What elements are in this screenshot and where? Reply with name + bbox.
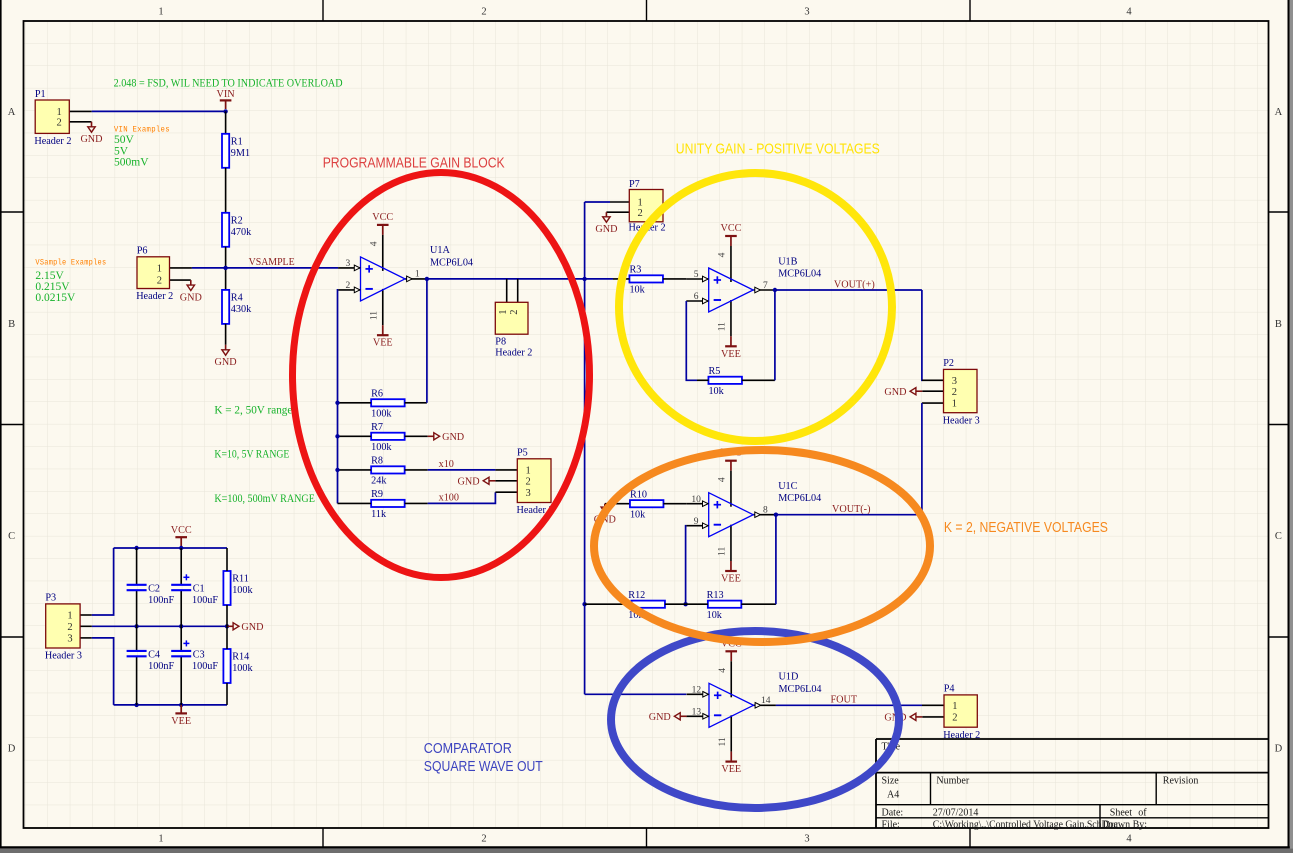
wire R14 bottom lead bbox=[226, 683, 228, 705]
svg-text:C3: C3 bbox=[193, 650, 205, 661]
svg-text:K=10, 5V RANGE: K=10, 5V RANGE bbox=[214, 449, 289, 461]
junction feedback R6 bbox=[335, 401, 339, 405]
wire VOUT+ down to P2 pin3 bbox=[921, 290, 923, 380]
svg-text:A: A bbox=[1275, 107, 1283, 118]
svg-text:U1D: U1D bbox=[779, 672, 799, 683]
wire R3 to U1B pin5 bbox=[663, 278, 686, 280]
wire R2 to VSAMPLE node bbox=[225, 247, 227, 268]
svg-text:MCP6L04: MCP6L04 bbox=[430, 257, 473, 268]
ground at R10 bbox=[594, 504, 616, 526]
svg-text:12: 12 bbox=[692, 686, 702, 696]
power port VCC at cap bank bbox=[171, 525, 192, 548]
svg-text:1: 1 bbox=[57, 107, 62, 118]
svg-text:4: 4 bbox=[718, 252, 728, 257]
wire bus to R3 bbox=[585, 278, 613, 280]
junction feedback R8 bbox=[335, 468, 339, 472]
svg-text:0.0215V: 0.0215V bbox=[35, 292, 76, 304]
wire bus to R9 bbox=[338, 502, 372, 504]
svg-text:50V: 50V bbox=[114, 134, 135, 146]
svg-text:1: 1 bbox=[498, 309, 509, 314]
svg-text:4: 4 bbox=[718, 477, 728, 482]
junction U1A output bbox=[425, 277, 429, 281]
svg-text:U1B: U1B bbox=[778, 256, 797, 267]
wire VOUT- up to P2 pin1 bbox=[921, 403, 923, 515]
svg-text:Number: Number bbox=[936, 776, 969, 787]
svg-text:VEE: VEE bbox=[373, 338, 393, 349]
junction mid rail C1 bbox=[179, 624, 183, 628]
svg-text:VCC: VCC bbox=[171, 525, 192, 536]
capacitor C2 bbox=[127, 548, 175, 626]
svg-text:100nF: 100nF bbox=[148, 595, 174, 606]
svg-text:14: 14 bbox=[761, 696, 771, 706]
resistor R11 bbox=[223, 571, 253, 605]
svg-text:GND: GND bbox=[884, 387, 906, 398]
ground at P5 pin 2 bbox=[458, 477, 496, 488]
junction top rail C1 bbox=[179, 546, 183, 550]
svg-text:of: of bbox=[1138, 808, 1147, 819]
wire output to P8 pin1 bbox=[506, 279, 508, 302]
connector P4 bbox=[943, 684, 980, 741]
wire U1A out to bus bbox=[427, 278, 585, 280]
svg-text:1: 1 bbox=[526, 466, 531, 477]
svg-text:Sheet: Sheet bbox=[1110, 808, 1132, 819]
svg-text:2: 2 bbox=[346, 281, 351, 291]
svg-text:100k: 100k bbox=[371, 408, 392, 419]
ground at P1 pin 2 bbox=[80, 122, 102, 145]
svg-text:R11: R11 bbox=[232, 574, 249, 585]
svg-text:2: 2 bbox=[157, 276, 162, 287]
svg-text:2: 2 bbox=[67, 622, 72, 633]
junction bottom rail C3 bbox=[179, 703, 183, 707]
wire R5 to output bbox=[742, 290, 775, 380]
wire U1C output stub bbox=[775, 514, 777, 516]
junction U1C output bbox=[774, 513, 778, 517]
svg-text:11: 11 bbox=[369, 311, 379, 320]
svg-text:100k: 100k bbox=[371, 442, 392, 453]
ground at rail bbox=[227, 622, 263, 633]
svg-text:GND: GND bbox=[649, 712, 671, 723]
svg-text:9M1: 9M1 bbox=[231, 148, 250, 159]
svg-text:B: B bbox=[1275, 319, 1282, 330]
resistor R13 bbox=[707, 590, 742, 621]
wire R6 to output bbox=[405, 279, 427, 403]
connector P2 bbox=[943, 358, 980, 426]
svg-text:C1: C1 bbox=[193, 584, 205, 595]
svg-text:2: 2 bbox=[509, 309, 520, 314]
svg-text:4: 4 bbox=[1126, 834, 1132, 845]
svg-text:Date:: Date: bbox=[882, 808, 904, 819]
svg-text:x100: x100 bbox=[439, 492, 459, 503]
svg-text:R10: R10 bbox=[630, 489, 647, 500]
svg-text:VIN: VIN bbox=[217, 89, 236, 100]
svg-text:4: 4 bbox=[369, 241, 379, 246]
red ellipse programmable gain block bbox=[293, 173, 590, 578]
svg-text:2: 2 bbox=[481, 7, 486, 18]
wire U1D pin13 stub bbox=[685, 715, 687, 717]
wire U1B pin6 to R5 bbox=[686, 301, 697, 380]
svg-text:2.048 = FSD, WIL NEED TO INDIC: 2.048 = FSD, WIL NEED TO INDICATE OVERLO… bbox=[114, 78, 343, 90]
svg-text:PROGRAMMABLE GAIN BLOCK: PROGRAMMABLE GAIN BLOCK bbox=[323, 155, 505, 171]
svg-text:100k: 100k bbox=[232, 663, 253, 674]
wire node to R13 bbox=[686, 603, 708, 605]
wire VSAMPLE node to R4 bbox=[225, 268, 227, 290]
svg-text:GND: GND bbox=[458, 477, 480, 488]
svg-text:1: 1 bbox=[158, 7, 163, 18]
svg-text:A: A bbox=[8, 107, 16, 118]
svg-text:10k: 10k bbox=[708, 386, 724, 397]
wire VOUT+ horizontal bbox=[775, 289, 922, 291]
wire output to P8 pin2 bbox=[517, 279, 519, 302]
wire mid GND rail bbox=[92, 625, 227, 627]
svg-text:P1: P1 bbox=[35, 89, 46, 100]
svg-text:R3: R3 bbox=[629, 265, 641, 276]
op-amp U1C bbox=[686, 448, 821, 585]
svg-text:10: 10 bbox=[691, 495, 701, 505]
svg-text:R8: R8 bbox=[371, 456, 383, 467]
svg-text:24k: 24k bbox=[371, 476, 387, 487]
svg-text:Header 2: Header 2 bbox=[495, 348, 532, 359]
svg-text:1: 1 bbox=[415, 270, 420, 280]
svg-text:2: 2 bbox=[57, 117, 62, 128]
wire U1A output bbox=[426, 278, 429, 280]
svg-text:VOUT(+): VOUT(+) bbox=[834, 279, 875, 290]
svg-text:3: 3 bbox=[346, 259, 351, 269]
resistor R7 bbox=[371, 422, 405, 453]
resistor R9 bbox=[371, 489, 405, 520]
ground at P2 pin 2 bbox=[884, 387, 922, 398]
junction U1B output bbox=[773, 288, 777, 292]
svg-text:Header 3: Header 3 bbox=[943, 415, 980, 426]
svg-text:3: 3 bbox=[952, 376, 957, 387]
junction bus at R12 row bbox=[582, 602, 586, 606]
wire R9 to P5 pin3 bbox=[428, 492, 496, 503]
wire R10 to U1C pin10 bbox=[663, 503, 686, 505]
svg-text:2: 2 bbox=[526, 476, 531, 487]
wire U1C pin9 to R12/R13 node bbox=[685, 526, 688, 605]
power port VIN bbox=[217, 89, 236, 109]
svg-text:2: 2 bbox=[952, 387, 957, 398]
wire VOUT- horizontal bbox=[776, 514, 922, 516]
op-amp U1A bbox=[338, 212, 473, 349]
svg-text:MCP6L04: MCP6L04 bbox=[779, 684, 822, 695]
capacitor C1 bbox=[171, 548, 218, 626]
junction mid rail R11 bbox=[225, 624, 229, 628]
svg-text:1: 1 bbox=[157, 264, 162, 275]
connector P8 bbox=[495, 302, 532, 358]
svg-text:Drawn By:: Drawn By: bbox=[1103, 819, 1147, 830]
resistor R4 bbox=[222, 290, 252, 324]
svg-text:SQUARE WAVE OUT: SQUARE WAVE OUT bbox=[424, 759, 543, 775]
svg-text:VSAMPLE: VSAMPLE bbox=[249, 257, 295, 268]
svg-text:13: 13 bbox=[692, 708, 702, 718]
wire R9 lead bbox=[405, 502, 428, 504]
svg-text:4: 4 bbox=[1126, 7, 1132, 18]
yellow ellipse unity gain bbox=[619, 173, 892, 441]
wire bus to R7 bbox=[338, 435, 372, 437]
resistor R5 bbox=[708, 366, 742, 397]
svg-text:R14: R14 bbox=[232, 652, 249, 663]
svg-text:P2: P2 bbox=[943, 358, 954, 369]
svg-text:1: 1 bbox=[952, 701, 957, 712]
svg-text:C2: C2 bbox=[148, 584, 160, 595]
svg-text:File:: File: bbox=[882, 819, 900, 830]
wire FOUT horizontal bbox=[776, 704, 922, 706]
wire P1 pin1 to VIN node bbox=[92, 110, 226, 112]
svg-text:VEE: VEE bbox=[721, 574, 741, 585]
blue ellipse comparator bbox=[611, 631, 899, 808]
svg-text:K = 2, NEGATIVE VOLTAGES: K = 2, NEGATIVE VOLTAGES bbox=[944, 520, 1108, 536]
wire R8 to P5 pin1 bbox=[428, 469, 496, 471]
svg-text:UNITY GAIN - POSITIVE VOLTAGES: UNITY GAIN - POSITIVE VOLTAGES bbox=[676, 141, 880, 157]
svg-text:7: 7 bbox=[763, 281, 768, 291]
svg-text:FOUT: FOUT bbox=[831, 695, 858, 706]
svg-text:VEE: VEE bbox=[721, 349, 741, 360]
svg-text:D: D bbox=[8, 744, 16, 755]
junction R12 R13 node bbox=[683, 602, 687, 606]
wire VIN node to R1 bbox=[225, 111, 227, 133]
svg-text:C4: C4 bbox=[148, 650, 160, 661]
svg-text:B: B bbox=[8, 319, 15, 330]
svg-text:GND: GND bbox=[215, 357, 237, 368]
svg-text:GND: GND bbox=[241, 622, 263, 633]
svg-text:27/07/2014: 27/07/2014 bbox=[933, 808, 979, 819]
resistor R8 bbox=[371, 456, 405, 487]
op-amp U1D bbox=[687, 638, 822, 775]
orange ellipse negative voltages bbox=[594, 450, 930, 642]
wire bus to R6 bbox=[338, 402, 372, 404]
wire R13 to output bbox=[741, 515, 776, 605]
svg-text:VSample Examples: VSample Examples bbox=[35, 259, 106, 268]
svg-text:U1A: U1A bbox=[430, 245, 450, 256]
resistor R12 bbox=[628, 590, 665, 621]
svg-text:5: 5 bbox=[694, 270, 699, 280]
junction bottom rail C4 bbox=[134, 703, 138, 707]
svg-text:K=100, 500mV RANGE: K=100, 500mV RANGE bbox=[214, 493, 315, 505]
wire R11 bottom lead bbox=[226, 605, 228, 626]
wire VCC top rail bbox=[114, 547, 227, 549]
wire bottom rail bbox=[114, 704, 227, 706]
svg-text:100nF: 100nF bbox=[148, 661, 174, 672]
svg-text:8: 8 bbox=[763, 506, 768, 516]
wire R4 to ground bbox=[225, 324, 227, 345]
svg-text:1: 1 bbox=[952, 399, 957, 410]
resistor R1 bbox=[222, 134, 250, 168]
svg-text:1: 1 bbox=[67, 611, 72, 622]
svg-text:K = 2, 50V range: K = 2, 50V range bbox=[214, 404, 292, 416]
svg-text:P3: P3 bbox=[45, 593, 56, 604]
svg-text:R6: R6 bbox=[371, 389, 383, 400]
svg-text:COMPARATOR: COMPARATOR bbox=[424, 741, 512, 757]
connector P7 bbox=[629, 179, 666, 233]
svg-text:430k: 430k bbox=[231, 304, 252, 315]
svg-text:VOUT(-): VOUT(-) bbox=[832, 504, 870, 515]
wire U1A pin2 feedback bus bbox=[337, 290, 340, 504]
wire U1D output stub bbox=[775, 704, 777, 706]
junction feedback R7 bbox=[335, 434, 339, 438]
svg-text:C: C bbox=[1275, 531, 1282, 542]
svg-text:GND: GND bbox=[442, 432, 464, 443]
svg-text:100k: 100k bbox=[232, 585, 253, 596]
ground at U1D pin 13 bbox=[649, 712, 687, 723]
svg-text:1: 1 bbox=[158, 834, 163, 845]
svg-text:R7: R7 bbox=[371, 422, 383, 433]
svg-text:100uF: 100uF bbox=[192, 661, 218, 672]
svg-text:10k: 10k bbox=[707, 610, 723, 621]
svg-text:VEE: VEE bbox=[171, 716, 191, 727]
resistor R3 bbox=[629, 265, 663, 296]
wire R1 to R2 bbox=[225, 168, 227, 213]
svg-text:3: 3 bbox=[804, 7, 809, 18]
svg-text:A4: A4 bbox=[887, 789, 899, 800]
svg-text:Revision: Revision bbox=[1163, 776, 1199, 787]
ground at P7 pin 2 bbox=[595, 212, 617, 235]
svg-text:11k: 11k bbox=[371, 509, 387, 520]
svg-text:VCC: VCC bbox=[372, 212, 393, 223]
wire R5 lead left bbox=[697, 379, 709, 381]
connector P3 bbox=[45, 593, 82, 662]
svg-text:D: D bbox=[1275, 744, 1283, 755]
svg-text:Size: Size bbox=[882, 776, 900, 787]
svg-text:P6: P6 bbox=[137, 246, 148, 257]
wire R12 to node bbox=[665, 603, 686, 605]
wire P3 pin3 to VEE rail bbox=[92, 638, 114, 705]
connector P6 bbox=[136, 246, 173, 303]
svg-text:MCP6L04: MCP6L04 bbox=[778, 493, 821, 504]
junction VIN node bbox=[223, 109, 227, 113]
wire R14 top lead bbox=[226, 626, 228, 649]
svg-text:470k: 470k bbox=[231, 227, 252, 238]
svg-text:P8: P8 bbox=[495, 337, 506, 348]
wire P7 pin1 to bus bbox=[585, 201, 610, 203]
svg-text:P5: P5 bbox=[517, 448, 528, 459]
svg-text:11: 11 bbox=[718, 322, 728, 331]
op-amp U1B bbox=[686, 223, 821, 360]
connector P1 bbox=[34, 89, 71, 147]
svg-text:R13: R13 bbox=[707, 590, 724, 601]
junction mid rail C2 bbox=[134, 624, 138, 628]
svg-text:R2: R2 bbox=[231, 215, 243, 226]
svg-text:Header 2: Header 2 bbox=[943, 730, 980, 741]
wire R8 lead bbox=[405, 469, 428, 471]
svg-text:4: 4 bbox=[718, 668, 728, 673]
resistor R10 bbox=[630, 489, 664, 520]
svg-text:R4: R4 bbox=[231, 293, 243, 304]
ground at P6 pin 2 bbox=[180, 280, 202, 303]
junction top rail C2 bbox=[134, 546, 138, 550]
svg-text:P7: P7 bbox=[629, 179, 640, 190]
capacitor C4 bbox=[127, 626, 175, 705]
svg-text:GND: GND bbox=[80, 134, 102, 145]
power port VEE at cap bank bbox=[171, 705, 191, 727]
svg-text:U1C: U1C bbox=[778, 481, 797, 492]
title block bbox=[876, 739, 1269, 830]
svg-text:VEE: VEE bbox=[721, 764, 741, 775]
wire bus to R8 bbox=[338, 469, 372, 471]
svg-text:500mV: 500mV bbox=[114, 157, 149, 169]
svg-text:Header 3: Header 3 bbox=[45, 651, 82, 662]
svg-text:R12: R12 bbox=[628, 590, 645, 601]
svg-text:C:\Working\..\Controlled Volta: C:\Working\..\Controlled Voltage Gain.Sc… bbox=[933, 819, 1119, 830]
svg-text:6: 6 bbox=[694, 292, 699, 302]
junction VSAMPLE node bbox=[223, 266, 227, 270]
svg-text:2: 2 bbox=[638, 208, 643, 219]
svg-text:GND: GND bbox=[595, 224, 617, 235]
svg-text:x10: x10 bbox=[439, 459, 454, 470]
svg-text:P4: P4 bbox=[944, 684, 955, 695]
svg-text:C: C bbox=[8, 531, 15, 542]
svg-text:R9: R9 bbox=[371, 489, 383, 500]
svg-text:3: 3 bbox=[804, 834, 809, 845]
wire P3 pin1 to VCC rail bbox=[92, 548, 114, 615]
wire main bus vertical bbox=[584, 202, 586, 694]
svg-text:3: 3 bbox=[67, 634, 72, 645]
junction bus at output row bbox=[582, 277, 586, 281]
wire R11 top lead bbox=[226, 548, 228, 571]
wire R3 lead left bbox=[613, 278, 630, 280]
ground at P4 pin 2 bbox=[884, 713, 922, 724]
svg-text:5V: 5V bbox=[114, 145, 129, 157]
svg-text:2: 2 bbox=[952, 713, 957, 724]
svg-text:VCC: VCC bbox=[720, 223, 741, 234]
wire bus to R12 bbox=[585, 603, 632, 605]
ground at R4 bbox=[215, 345, 237, 368]
resistor R14 bbox=[223, 649, 253, 683]
svg-text:10k: 10k bbox=[630, 509, 646, 520]
resistor R2 bbox=[222, 213, 252, 247]
svg-text:10k: 10k bbox=[629, 285, 645, 296]
wire U1B output stub bbox=[774, 289, 777, 291]
resistor R6 bbox=[371, 389, 405, 420]
svg-text:VIN Examples: VIN Examples bbox=[114, 125, 170, 134]
wire R7 to ground stub bbox=[405, 435, 428, 437]
svg-text:MCP6L04: MCP6L04 bbox=[778, 269, 821, 280]
svg-text:3: 3 bbox=[526, 488, 531, 499]
wire P6 pin1 to VSAMPLE node bbox=[192, 267, 226, 269]
connector P5 bbox=[517, 448, 554, 516]
svg-text:11: 11 bbox=[718, 547, 728, 556]
ground at R7 bbox=[428, 432, 464, 443]
wire VSAMPLE to U1A pin3 bbox=[226, 267, 339, 269]
svg-text:11: 11 bbox=[718, 737, 728, 746]
wire bus to U1D pin12 bbox=[585, 693, 687, 695]
svg-text:GND: GND bbox=[180, 292, 202, 303]
wire R10 lead left bbox=[605, 503, 630, 505]
svg-text:9: 9 bbox=[694, 517, 699, 527]
svg-text:100uF: 100uF bbox=[192, 595, 218, 606]
capacitor C3 bbox=[171, 626, 218, 705]
svg-text:R5: R5 bbox=[708, 366, 720, 377]
svg-text:2: 2 bbox=[481, 834, 486, 845]
svg-text:R1: R1 bbox=[231, 136, 243, 147]
svg-text:Header 2: Header 2 bbox=[136, 291, 173, 302]
svg-text:Header 2: Header 2 bbox=[34, 136, 71, 147]
